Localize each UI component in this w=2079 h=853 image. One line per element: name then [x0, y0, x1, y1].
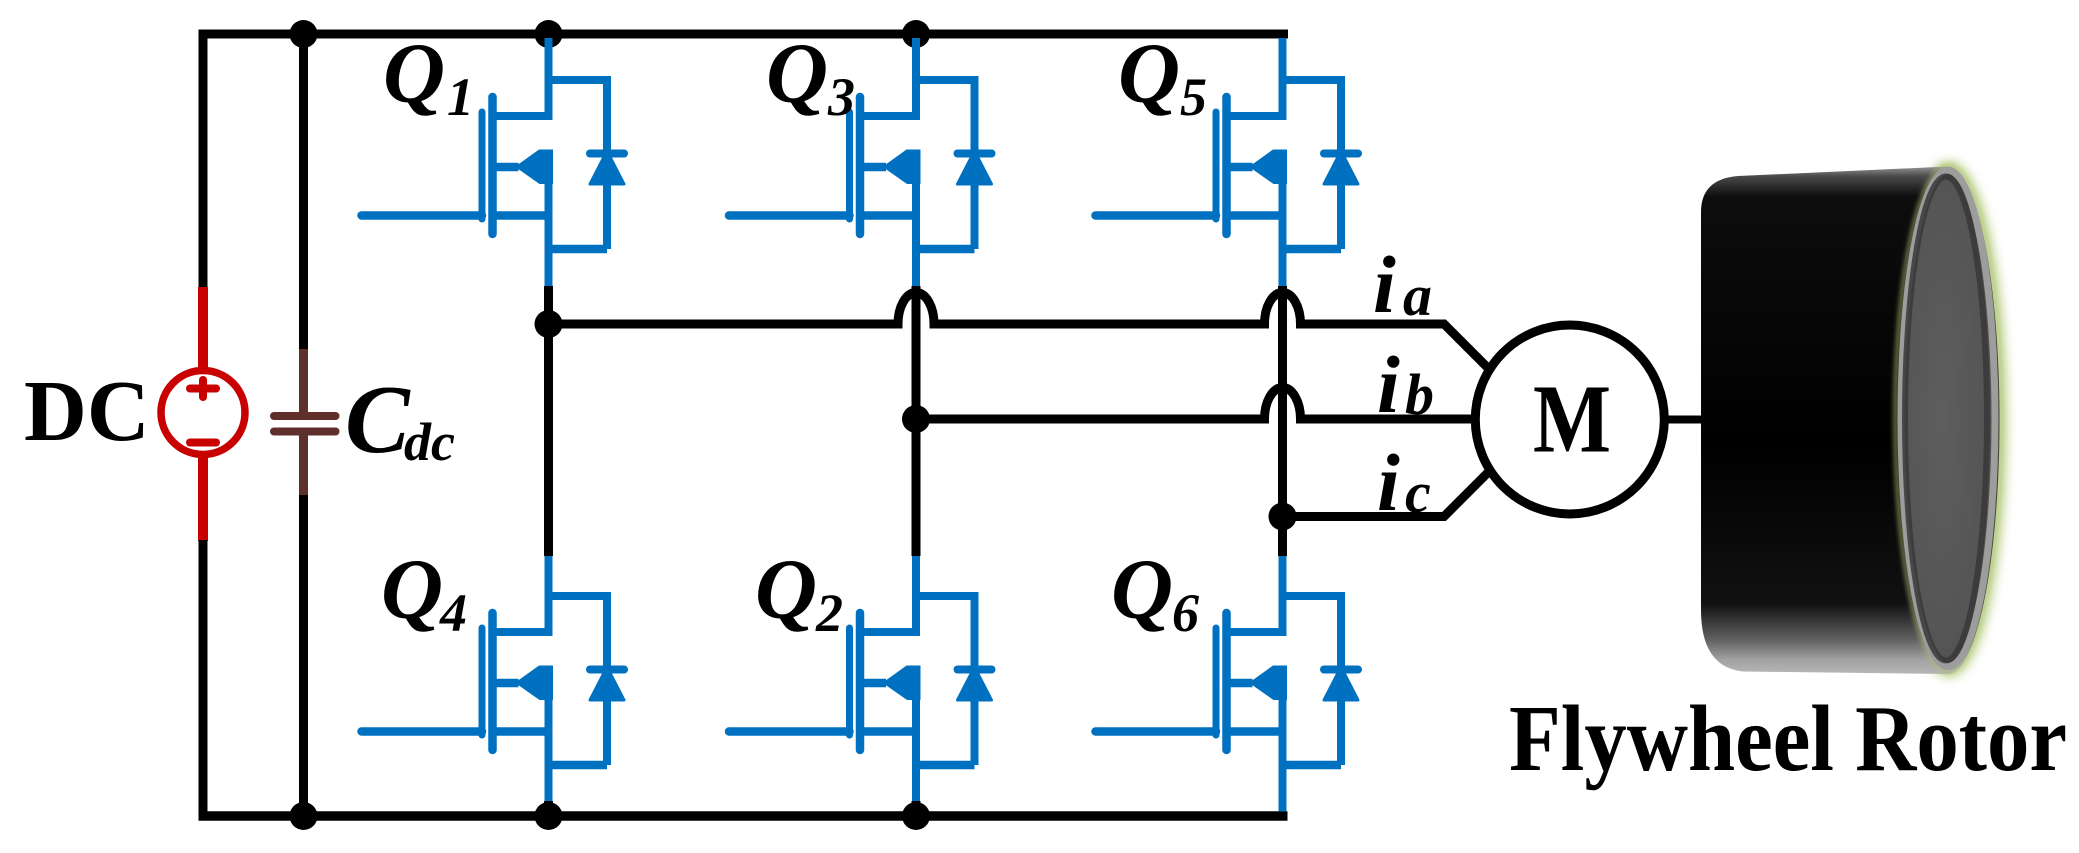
svg-text:4: 4 [439, 583, 467, 643]
svg-text:1: 1 [447, 67, 474, 127]
svg-text:i: i [1377, 339, 1400, 430]
svg-text:Q: Q [1118, 25, 1180, 121]
wire bottom DC bus [199, 811, 1288, 821]
wire left DC branch upper (red) [198, 287, 208, 372]
wire Q6 source to bottom bus [1279, 800, 1287, 812]
wire capacitor branch top (black) [299, 30, 308, 351]
svg-text:5: 5 [1180, 67, 1207, 127]
junction top bus / Q3 [902, 20, 930, 48]
svg-text:i: i [1377, 437, 1400, 528]
motor M circle [1475, 325, 1664, 514]
svg-text:Q: Q [1111, 541, 1173, 637]
junction top bus / Q1 [535, 20, 563, 48]
junction bottom bus / capacitor [290, 802, 318, 830]
wire leg B middle (Q3 source to Q2 drain) [912, 286, 921, 556]
transistor Q5 (MOSFET with body diode) [1096, 38, 1359, 291]
svg-text:2: 2 [815, 583, 843, 643]
svg-text:Q: Q [381, 541, 443, 637]
node c junction dot [1269, 503, 1297, 531]
wire motor shaft [1664, 416, 1704, 424]
wire leg C middle (Q5 source to Q6 drain) [1278, 286, 1287, 556]
svg-text:6: 6 [1172, 583, 1199, 643]
svg-text:Q: Q [766, 25, 828, 121]
junction bottom bus / Q4 [535, 802, 563, 830]
svg-text:Q: Q [383, 25, 445, 121]
wire capacitor branch top (maroon) [299, 349, 308, 414]
wire phase b with hop [916, 388, 1476, 419]
svg-text:b: b [1405, 362, 1434, 427]
voltage source plus sign [190, 380, 216, 397]
svg-text:3: 3 [827, 67, 855, 127]
flywheel glow sliver on body [1896, 166, 2001, 672]
voltage source DC circle [161, 371, 245, 455]
capacitor Cdc bottom plate [274, 428, 336, 436]
flywheel glow [1896, 166, 2002, 672]
flywheel rotor face inner shadow ring [1905, 177, 1987, 661]
transistor Q3 (MOSFET with body diode) [729, 38, 992, 291]
transistor Q4 (MOSFET with body diode) [362, 554, 625, 807]
svg-text:i: i [1373, 239, 1396, 330]
svg-text:Q: Q [755, 541, 817, 637]
flywheel rotor body [1701, 167, 2000, 675]
wire Q2 source to bottom bus [912, 801, 921, 816]
wire capacitor branch bottom (black) [299, 495, 308, 816]
node b junction dot [902, 405, 930, 433]
wire top DC bus [199, 30, 1289, 39]
wire phase a with hops [549, 293, 1490, 370]
transistor Q2 (MOSFET with body diode) [729, 554, 992, 807]
junction bottom bus / Q2 [902, 802, 930, 830]
svg-text:Flywheel Rotor: Flywheel Rotor [1509, 687, 2067, 791]
svg-text:c: c [1405, 460, 1431, 525]
voltage source minus sign [190, 439, 216, 447]
transistor Q6 (MOSFET with body diode) [1096, 554, 1359, 807]
wire left DC branch upper (black) [199, 30, 208, 289]
svg-text:M: M [1533, 366, 1611, 473]
wire leg A middle (Q1 source to Q4 drain) [544, 286, 553, 556]
svg-text:DC: DC [24, 362, 150, 459]
wire phase c [1283, 471, 1490, 517]
svg-text:a: a [1403, 263, 1432, 328]
node a junction dot [535, 310, 563, 338]
svg-text:dc: dc [404, 412, 455, 472]
wire left DC branch lower (black) [199, 540, 208, 821]
capacitor Cdc top plate [274, 412, 336, 420]
wire capacitor branch bottom (maroon) [299, 433, 308, 496]
svg-text:C: C [345, 366, 411, 473]
transistor Q1 (MOSFET with body diode) [362, 38, 625, 291]
junction top bus / capacitor [290, 20, 318, 48]
wire Q4 source to bottom bus [544, 801, 553, 816]
wire left DC branch lower (red) [198, 455, 208, 542]
flywheel rotor right face [1901, 171, 1995, 667]
